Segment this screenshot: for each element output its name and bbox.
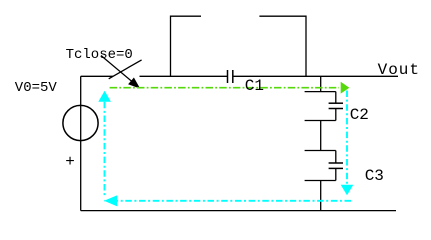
label C3 bbox=[365, 168, 384, 184]
capacitor C2 (offset body with jog leads) bbox=[305, 92, 343, 121]
cyan loop: down arrowhead bbox=[341, 185, 354, 196]
cyan loop: up arrowhead bbox=[98, 91, 111, 102]
wire: bottom return wire bbox=[81, 210, 396, 212]
label Tclose=0 bbox=[66, 48, 133, 62]
label + (source polarity) bbox=[65, 154, 75, 170]
wire: top wire from C1 right plate to Vout end bbox=[233, 75, 398, 77]
wire: top-right stub L-shape bbox=[259, 16, 306, 76]
cyan loop: left vertical segment bbox=[104, 102, 106, 196]
wire: left vertical from top wire through source to bottom bbox=[80, 76, 82, 210]
capacitor C1 plates bbox=[228, 70, 233, 83]
label Vout bbox=[378, 62, 420, 78]
cyan loop: bottom horizontal segment bbox=[104, 200, 351, 202]
capacitor C3 (offset body with jog leads) bbox=[305, 151, 343, 181]
wire: right branch from top wire down to C2 bbox=[320, 76, 322, 91]
cyan loop: right vertical segment bbox=[346, 91, 348, 186]
switch U1 lever bbox=[109, 60, 142, 79]
voltage source V0 (circle) bbox=[63, 105, 98, 140]
label C1 bbox=[245, 78, 264, 94]
switch U1 actuate arrow shaft bbox=[101, 56, 134, 84]
label V0=5V bbox=[15, 81, 57, 95]
wire: top wire from switch right terminal to C1 left plate bbox=[140, 75, 228, 77]
wire: right branch between C2 and C3 bbox=[320, 121, 322, 151]
label C2 bbox=[350, 107, 369, 123]
green current path arrowhead bbox=[341, 82, 350, 94]
wire: top-left stub L-shape bbox=[171, 16, 202, 76]
cyan loop: left arrowhead bbox=[104, 195, 117, 206]
green current path line (node A to Vout) bbox=[110, 87, 339, 89]
wire: top-left horizontal to switch left terminal bbox=[81, 75, 113, 77]
wire: right branch from C3 to bottom wire bbox=[320, 181, 322, 211]
switch U1 actuate arrowhead bbox=[128, 78, 140, 89]
